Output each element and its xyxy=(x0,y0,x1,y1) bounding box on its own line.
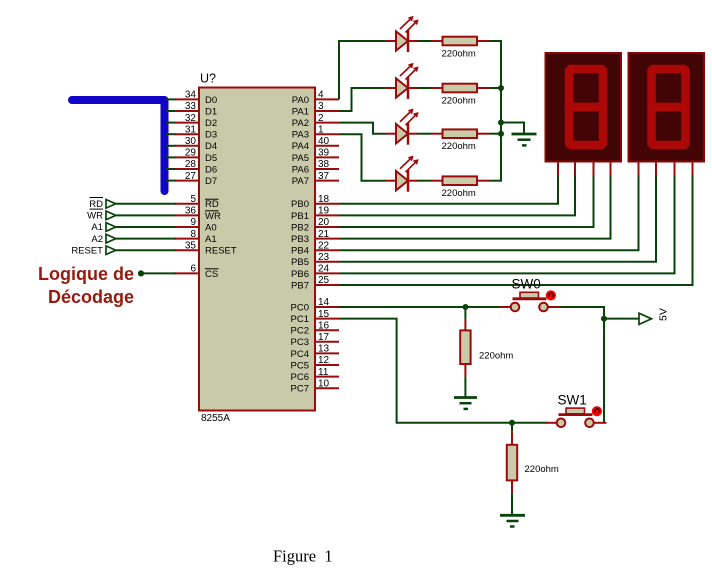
wire PB4 to DISP2 pin 1 xyxy=(339,175,639,250)
svg-text:18: 18 xyxy=(318,194,330,205)
svg-text:PA3: PA3 xyxy=(292,130,309,141)
pin PB3 (21) xyxy=(291,229,339,245)
svg-text:1: 1 xyxy=(318,124,324,135)
svg-text:PA7: PA7 xyxy=(292,176,309,187)
pin WR (36) xyxy=(175,206,221,222)
resistor R1 xyxy=(431,37,490,46)
wire PB0 to DISP1 pin 1 xyxy=(339,175,558,204)
wire R6 to ground xyxy=(511,493,513,515)
svg-text:25: 25 xyxy=(318,275,330,286)
svg-text:PA4: PA4 xyxy=(292,141,309,152)
wire resistor R2 to common rail xyxy=(490,87,502,89)
data bus (blue) xyxy=(72,100,165,191)
svg-text:13: 13 xyxy=(318,344,330,355)
junction bottom rail / R6 xyxy=(509,420,515,426)
svg-text:PB4: PB4 xyxy=(291,246,309,257)
svg-text:16: 16 xyxy=(318,320,330,331)
svg-text:D4: D4 xyxy=(205,141,217,152)
svg-text:A0: A0 xyxy=(205,222,217,233)
svg-text:D2: D2 xyxy=(205,118,217,129)
svg-text:U?: U? xyxy=(200,72,216,86)
switch SW1 actuator dot xyxy=(592,406,602,416)
svg-text:37: 37 xyxy=(318,171,330,182)
svg-text:A2: A2 xyxy=(91,234,103,245)
resistor R2 xyxy=(431,84,490,93)
svg-text:PA5: PA5 xyxy=(292,153,309,164)
svg-text:D7: D7 xyxy=(205,176,217,187)
wire PA3 to LED D4 xyxy=(339,134,386,181)
svg-text:24: 24 xyxy=(318,264,330,275)
svg-text:36: 36 xyxy=(185,206,197,217)
pin PB7 (25) xyxy=(291,275,339,291)
svg-text:35: 35 xyxy=(185,240,197,251)
svg-text:PA0: PA0 xyxy=(292,95,309,106)
pin PA5 (39) xyxy=(292,148,339,164)
wire PC1 to bottom rail xyxy=(339,319,547,423)
wire PB3 to DISP1 pin 4 xyxy=(339,175,611,239)
svg-text:D3: D3 xyxy=(205,130,217,141)
svg-text:38: 38 xyxy=(318,159,330,170)
pin PB4 (22) xyxy=(291,240,339,256)
pin PA1 (3) xyxy=(292,101,339,117)
pin A1 (8) xyxy=(175,229,217,245)
svg-text:WR: WR xyxy=(205,211,221,222)
node: CS origin dot xyxy=(138,270,144,276)
wire terminal A1 to IC xyxy=(116,226,176,228)
svg-text:14: 14 xyxy=(318,297,330,308)
svg-text:PB2: PB2 xyxy=(291,222,309,233)
svg-text:Décodage: Décodage xyxy=(48,287,134,307)
svg-text:Logique de: Logique de xyxy=(38,264,134,284)
wire PA0 to LED D1 xyxy=(339,41,386,99)
pin RD (5) xyxy=(175,194,219,210)
wire LED D3 to resistor R3 xyxy=(417,133,431,135)
input terminal WR xyxy=(87,209,116,222)
svg-text:11: 11 xyxy=(318,367,329,378)
svg-text:D6: D6 xyxy=(205,164,217,175)
wire PB5 to DISP2 pin 2 xyxy=(339,175,656,262)
pin PA4 (40) xyxy=(292,136,339,152)
pin RESET (35) xyxy=(175,240,237,256)
svg-text:22: 22 xyxy=(318,240,330,251)
LED D3 xyxy=(386,110,418,145)
power terminal 5V xyxy=(639,313,652,324)
wire resistor R4 to common rail xyxy=(490,180,502,182)
pin PC0 (14) xyxy=(291,297,339,313)
pin PB5 (23) xyxy=(291,252,339,268)
7-segment display DISP2 xyxy=(629,53,705,176)
svg-text:D1: D1 xyxy=(205,106,217,117)
svg-text:40: 40 xyxy=(318,136,330,147)
pin PA0 (4) xyxy=(292,90,339,106)
svg-text:31: 31 xyxy=(185,124,197,135)
svg-text:28: 28 xyxy=(185,159,197,170)
svg-text:33: 33 xyxy=(185,101,197,112)
wire PA1 to LED D2 xyxy=(339,88,386,111)
input terminal A1 xyxy=(91,222,115,233)
ground (LED common) xyxy=(512,134,537,145)
pin PA6 (38) xyxy=(292,159,339,175)
wire terminal RD to IC xyxy=(116,203,176,205)
wire terminal WR to IC xyxy=(116,214,176,216)
svg-text:PB1: PB1 xyxy=(291,211,309,222)
wire LED D4 to resistor R4 xyxy=(417,180,431,182)
pin D4 (30) with bus tap wire xyxy=(166,136,217,152)
wire Logique de Décodage to CS xyxy=(141,272,176,274)
junction rail / R2 xyxy=(498,85,504,91)
LED D1 xyxy=(386,17,418,52)
svg-text:27: 27 xyxy=(185,171,197,182)
svg-text:4: 4 xyxy=(318,90,324,101)
pin PC2 (16) xyxy=(291,320,339,336)
svg-text:30: 30 xyxy=(185,136,197,147)
input terminal A2 xyxy=(91,234,115,245)
wire PB1 to DISP1 pin 2 xyxy=(339,175,575,215)
LED D4 xyxy=(386,157,418,192)
svg-text:D0: D0 xyxy=(205,95,217,106)
svg-text:PC4: PC4 xyxy=(291,349,309,360)
pin PC3 (17) xyxy=(291,332,339,348)
pin D1 (33) with bus tap wire xyxy=(166,101,217,117)
svg-text:A1: A1 xyxy=(205,234,217,245)
svg-text:PC7: PC7 xyxy=(291,384,309,395)
junction rail / ground branch xyxy=(498,120,504,126)
svg-text:PC0: PC0 xyxy=(291,302,309,313)
svg-text:SW0: SW0 xyxy=(512,277,541,292)
wire to 5V terminal xyxy=(604,318,639,320)
svg-text:19: 19 xyxy=(318,206,330,217)
wire resistor R3 to common rail xyxy=(490,133,502,135)
svg-text:10: 10 xyxy=(318,378,330,389)
resistor R6 (vertical) xyxy=(507,432,517,493)
junction rail / R3 xyxy=(498,131,504,137)
wire LED common rail xyxy=(500,41,502,181)
svg-text:PB6: PB6 xyxy=(291,269,309,280)
wire terminal RESET to IC xyxy=(116,249,176,251)
svg-text:RESET: RESET xyxy=(71,245,103,256)
switch SW1 xyxy=(546,408,607,427)
svg-text:PA2: PA2 xyxy=(292,118,309,129)
wire resistor R1 to common rail xyxy=(490,40,502,42)
wire junction to R5 xyxy=(464,307,466,320)
svg-text:220ohm: 220ohm xyxy=(442,188,476,199)
pin D0 (34) with bus tap wire xyxy=(166,90,217,106)
svg-text:5: 5 xyxy=(190,194,196,205)
pin D5 (29) with bus tap wire xyxy=(166,148,217,164)
wire LED D1 to resistor R1 xyxy=(417,40,431,42)
pin PA7 (37) xyxy=(292,171,339,187)
IC U? (8255A) body xyxy=(199,88,315,411)
svg-text:PB7: PB7 xyxy=(291,280,309,291)
input terminal RESET xyxy=(71,245,115,256)
svg-text:RESET: RESET xyxy=(205,246,237,257)
svg-text:21: 21 xyxy=(318,229,330,240)
svg-text:A1: A1 xyxy=(91,222,103,233)
svg-text:220ohm: 220ohm xyxy=(442,96,476,107)
pin D7 (27) with bus tap wire xyxy=(166,171,217,187)
svg-text:39: 39 xyxy=(318,148,330,159)
svg-text:32: 32 xyxy=(185,113,197,124)
svg-text:PC5: PC5 xyxy=(291,360,309,371)
pin PC1 (15) xyxy=(291,309,339,325)
resistor R4 xyxy=(431,176,490,185)
svg-text:12: 12 xyxy=(318,355,330,366)
svg-text:5V: 5V xyxy=(658,308,670,321)
wire rail to ground xyxy=(501,123,524,134)
svg-text:D5: D5 xyxy=(205,153,217,164)
svg-text:PB3: PB3 xyxy=(291,234,309,245)
switch SW0 actuator dot xyxy=(546,290,556,300)
7-segment display DISP1 xyxy=(546,53,622,176)
pin PC6 (11) xyxy=(291,367,339,383)
ground (R5) xyxy=(454,398,477,409)
wire PC0 to SW0 xyxy=(339,306,500,308)
pin PA2 (2) xyxy=(292,113,339,129)
svg-text:8: 8 xyxy=(190,229,196,240)
svg-text:PB5: PB5 xyxy=(291,257,309,268)
svg-text:PB0: PB0 xyxy=(291,199,309,210)
pin PB0 (18) xyxy=(291,194,339,210)
junction rail / 5V terminal xyxy=(601,316,607,322)
pin PB1 (19) xyxy=(291,206,339,222)
svg-text:2: 2 xyxy=(318,113,324,124)
pin PA3 (1) xyxy=(292,124,339,140)
svg-text:RD: RD xyxy=(205,199,219,210)
svg-text:CS: CS xyxy=(205,269,218,280)
wire LED D2 to resistor R2 xyxy=(417,87,431,89)
svg-text:220ohm: 220ohm xyxy=(442,141,476,152)
svg-text:29: 29 xyxy=(185,148,197,159)
svg-text:PC2: PC2 xyxy=(291,326,309,337)
svg-text:9: 9 xyxy=(190,217,196,228)
svg-text:220ohm: 220ohm xyxy=(479,351,513,362)
svg-text:WR: WR xyxy=(87,211,103,222)
pin CS (6) xyxy=(175,264,219,280)
wire R6 drop xyxy=(511,423,513,432)
pin D3 (31) with bus tap wire xyxy=(166,124,217,140)
svg-text:6: 6 xyxy=(190,264,196,275)
pin D6 (28) with bus tap wire xyxy=(166,159,217,175)
svg-text:23: 23 xyxy=(318,252,330,263)
input terminal RD xyxy=(89,198,116,211)
wire R5 to ground xyxy=(464,376,466,397)
svg-text:15: 15 xyxy=(318,309,330,320)
pin A0 (9) xyxy=(175,217,217,233)
junction PC0 / R5 branch xyxy=(463,304,469,310)
svg-text:RD: RD xyxy=(89,199,103,210)
svg-text:PC6: PC6 xyxy=(291,372,309,383)
pin PB6 (24) xyxy=(291,264,339,280)
svg-text:PA1: PA1 xyxy=(292,106,309,117)
pin PC5 (12) xyxy=(291,355,339,371)
svg-text:Figure 1: Figure 1 xyxy=(273,547,333,566)
wire SW0 to +5V rail xyxy=(561,307,605,423)
svg-text:34: 34 xyxy=(185,90,197,101)
svg-text:220ohm: 220ohm xyxy=(442,49,476,60)
pin PC4 (13) xyxy=(291,344,339,360)
LED D2 xyxy=(386,64,418,99)
label Logique de Décodage xyxy=(38,264,134,307)
wire PB7 to DISP2 pin 4 xyxy=(339,175,693,285)
pin D2 (32) with bus tap wire xyxy=(166,113,217,129)
svg-text:8255A: 8255A xyxy=(201,413,230,424)
switch SW0 xyxy=(500,292,561,311)
ground (R6) xyxy=(500,515,525,526)
wire PA2 to LED D3 xyxy=(339,123,386,134)
wire PB2 to DISP1 pin 3 xyxy=(339,175,594,227)
wire terminal A2 to IC xyxy=(116,238,176,240)
pin PB2 (20) xyxy=(291,217,339,233)
wire PB6 to DISP2 pin 3 xyxy=(339,175,675,273)
svg-text:PC3: PC3 xyxy=(291,337,309,348)
svg-text:SW1: SW1 xyxy=(558,392,587,407)
resistor R3 xyxy=(431,129,490,138)
resistor R5 (vertical) xyxy=(460,320,470,377)
svg-text:PC1: PC1 xyxy=(291,314,309,325)
svg-text:20: 20 xyxy=(318,217,330,228)
svg-text:3: 3 xyxy=(318,101,324,112)
svg-text:17: 17 xyxy=(318,332,330,343)
svg-text:220ohm: 220ohm xyxy=(525,464,559,475)
pin PC7 (10) xyxy=(291,378,339,394)
svg-text:PA6: PA6 xyxy=(292,164,309,175)
